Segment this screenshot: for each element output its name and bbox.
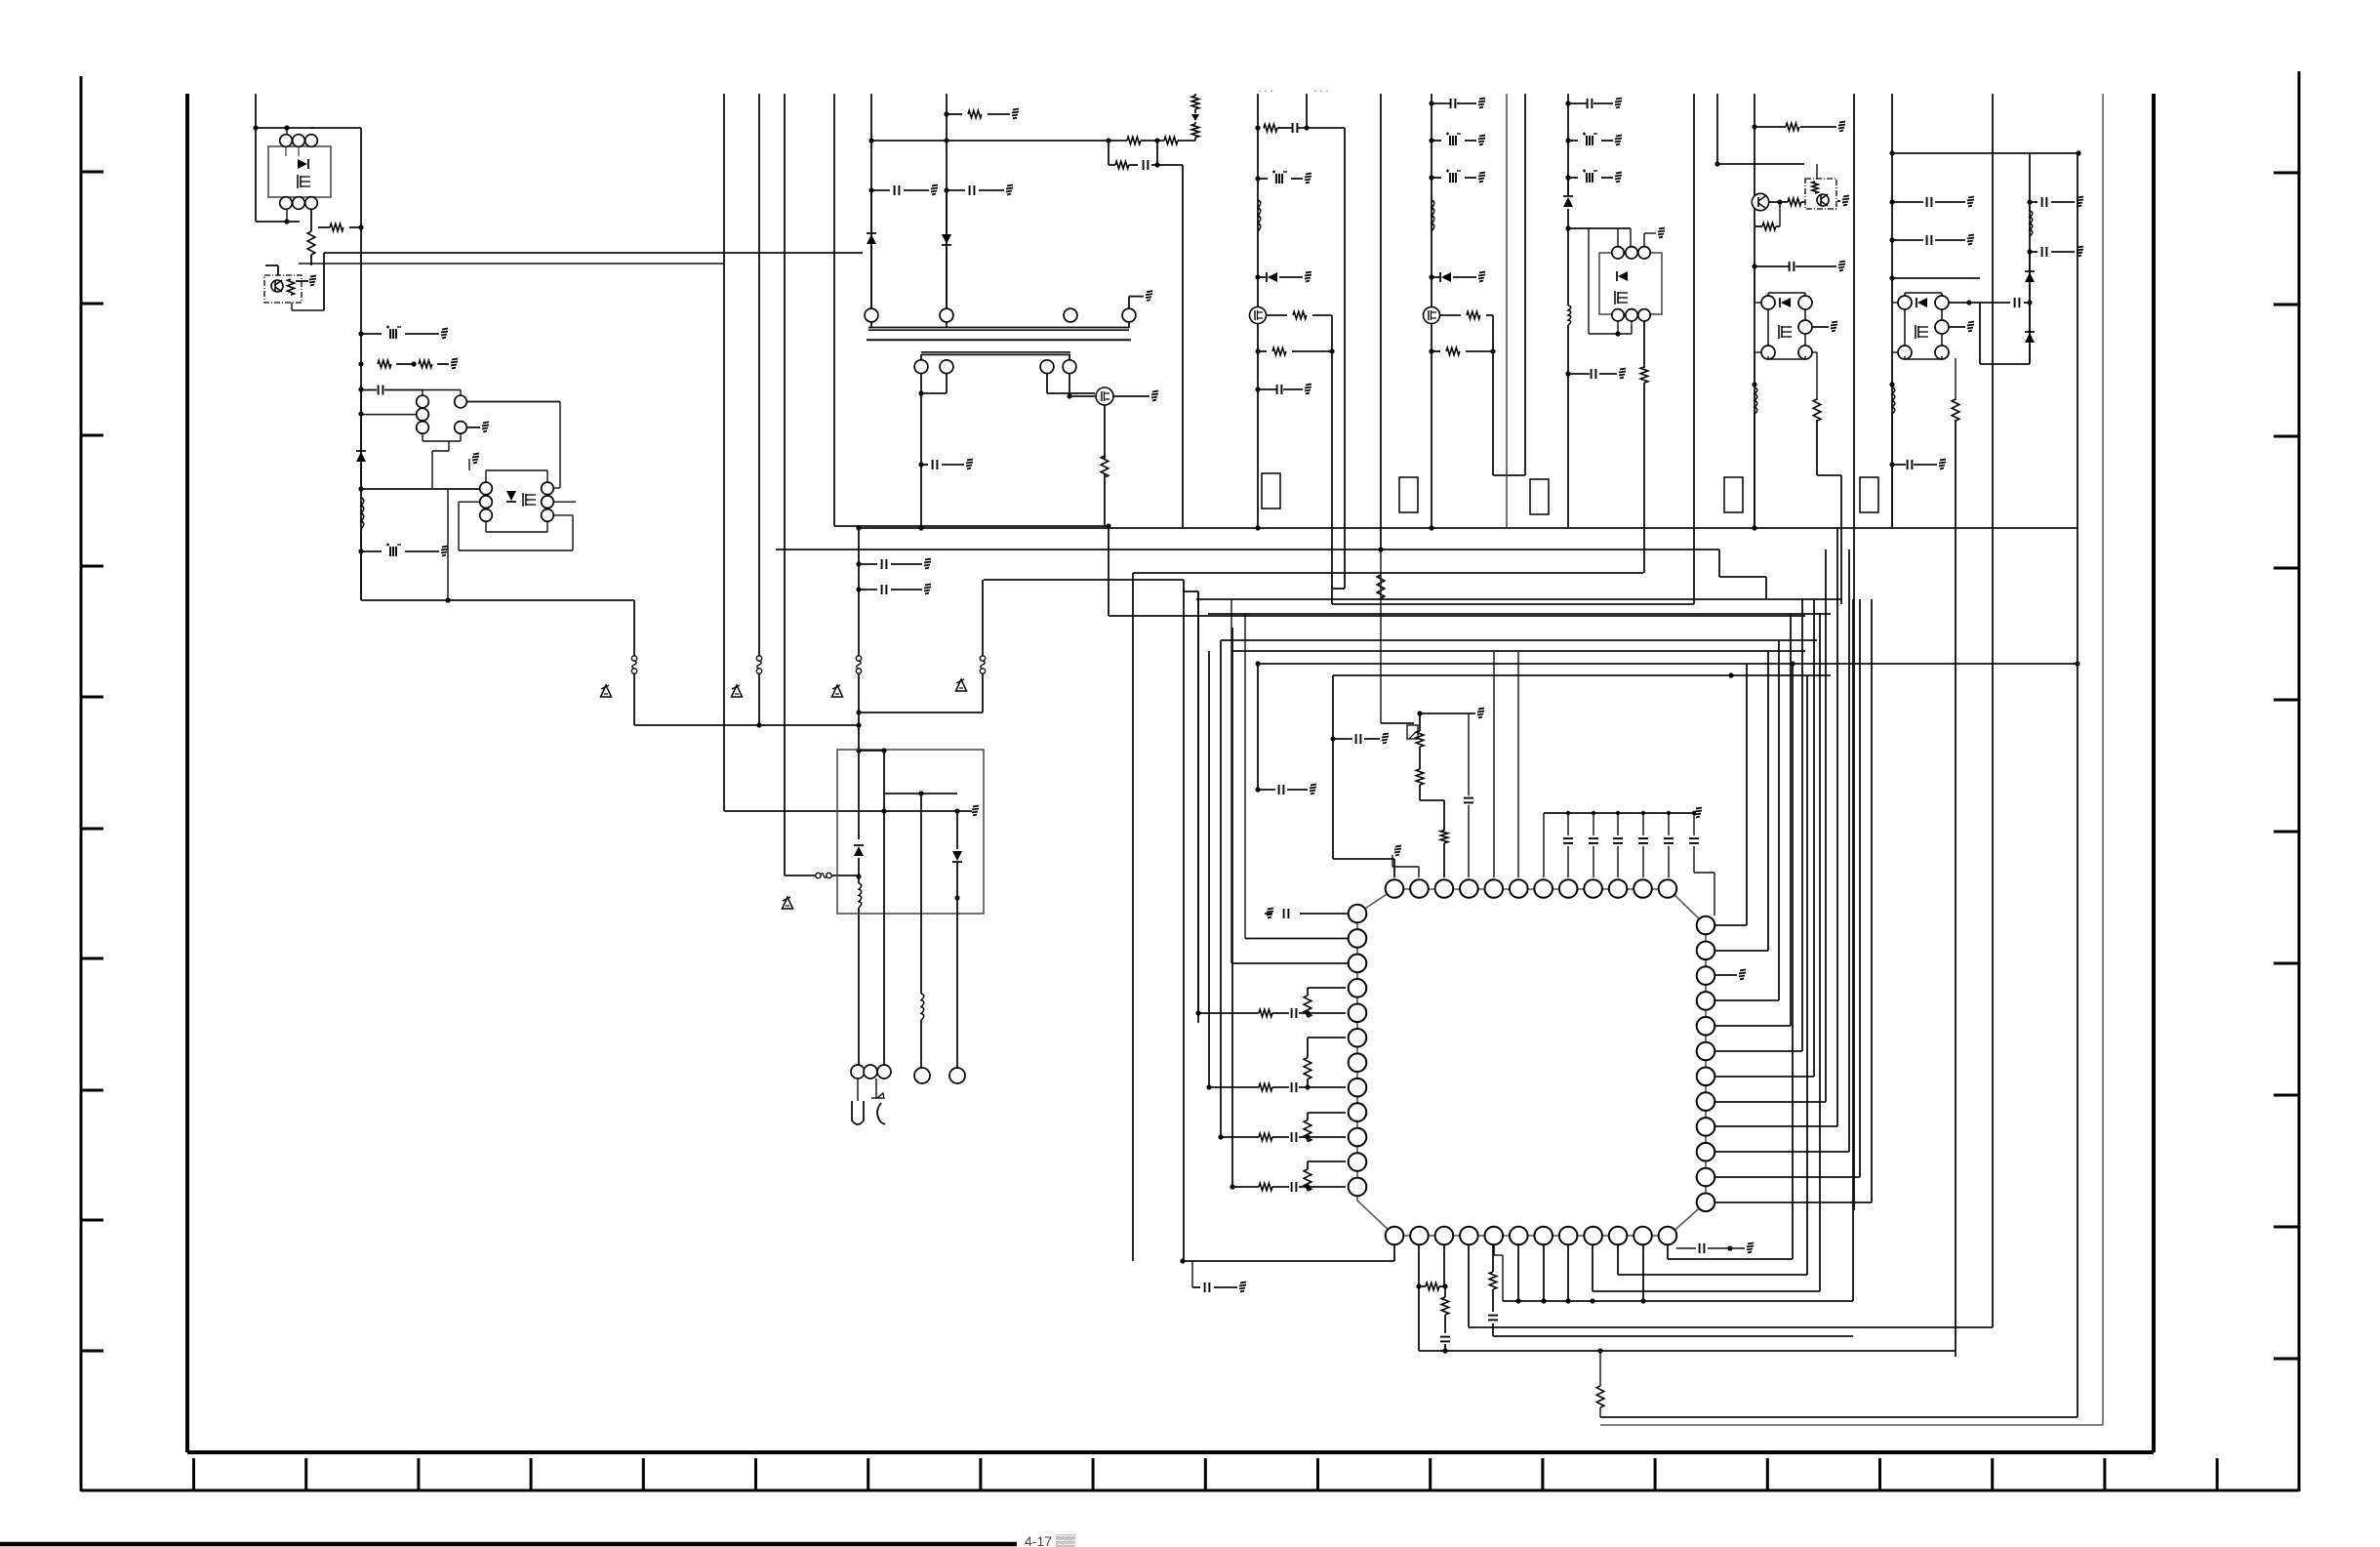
svg-text:...: ... [1257,85,1274,96]
svg-text:4-17 ▒▒: 4-17 ▒▒ [1025,1533,1075,1547]
svg-text:...: ... [1312,85,1330,96]
